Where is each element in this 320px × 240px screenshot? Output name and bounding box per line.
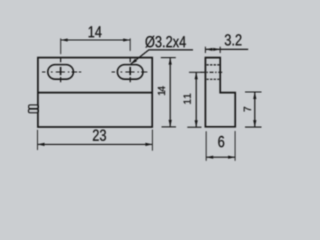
dimension 14 right: top extension tick xyxy=(161,57,176,59)
dimension text 23 xyxy=(93,130,106,141)
dimension 23: extension line left xyxy=(37,130,39,150)
dimension 3.2: extension tick left xyxy=(204,47,206,53)
dimension 7: up arrowhead xyxy=(253,92,256,99)
dimension 11: top extension tick xyxy=(189,71,202,73)
dimension 14 right: up arrowhead xyxy=(169,58,172,65)
dimension 14 right: down arrowhead xyxy=(169,120,172,127)
dimension text 3.2 xyxy=(225,34,242,45)
dimension text 14 top xyxy=(89,26,102,37)
dimension text 7 (rotated) xyxy=(244,107,251,112)
hole H2 center mark xyxy=(129,67,131,75)
front view body outline xyxy=(38,58,152,127)
hole H1 center mark xyxy=(60,67,62,75)
dimension 3.2: left arrowhead xyxy=(205,48,212,51)
dimension 23: right arrowhead xyxy=(145,143,152,146)
leader arrowhead xyxy=(131,59,138,65)
dimension 14 right: dimension line xyxy=(169,58,171,127)
dimension text 6 xyxy=(218,136,224,147)
dimension text 11 (rotated) xyxy=(184,94,191,104)
dimension 3.2: right arrowhead xyxy=(213,48,220,51)
dimension 14 top: right arrowhead xyxy=(123,39,130,42)
dimension 6: right arrowhead xyxy=(228,156,235,159)
dimension 14 top: left arrowhead xyxy=(61,39,68,42)
side view profile outline xyxy=(205,58,235,127)
dimension 6: extension line right xyxy=(234,131,236,161)
hole callout text O3.2x4 xyxy=(145,36,185,48)
dimension 14 right: bottom extension tick xyxy=(162,126,177,128)
side view hidden line lower xyxy=(206,78,219,80)
side view hidden line upper xyxy=(206,64,219,66)
dimension 11: bottom extension tick xyxy=(187,126,201,128)
dimension 14 top: extension line right xyxy=(129,38,131,51)
dimension 3.2: extension tick right xyxy=(219,47,221,53)
dimension 6: left arrowhead xyxy=(206,156,213,159)
dimension 7: down arrowhead xyxy=(253,120,256,127)
dimension 7: top extension tick xyxy=(245,91,262,93)
dimension 14 top: dimension line xyxy=(61,39,131,41)
hole H1 vertical centerline xyxy=(60,58,62,82)
dimension 23: extension line right xyxy=(151,130,153,151)
front view parting line xyxy=(38,92,152,94)
dimension 23: left arrowhead xyxy=(38,143,45,146)
dimension 23: dimension line xyxy=(38,143,153,145)
dimension 14 top: extension line left xyxy=(60,38,62,54)
hole H2 horizontal centerline xyxy=(112,71,148,73)
hole H1 horizontal centerline xyxy=(42,71,81,73)
dimension 6: extension line left xyxy=(205,131,207,161)
connector pin P2 xyxy=(29,109,39,112)
hole H1 slot outline xyxy=(48,65,74,80)
hole H2 vertical centerline xyxy=(129,58,131,82)
dimension 7: bottom extension tick xyxy=(245,126,262,128)
hole H2 slot outline xyxy=(117,65,143,80)
dimension 11: dimension line xyxy=(195,72,197,127)
dimension 6: dimension line xyxy=(206,156,235,158)
dimension text 14 right (rotated) xyxy=(158,86,165,95)
side view hole centerline xyxy=(201,71,224,73)
connector pin P1 xyxy=(29,105,39,108)
leader line for hole callout xyxy=(131,50,193,64)
dimension 7: dimension line xyxy=(254,92,256,127)
dimension 3.2: dimension line xyxy=(205,48,248,50)
dimension 11: up arrowhead xyxy=(195,72,198,79)
dimension 11: down arrowhead xyxy=(195,120,198,127)
